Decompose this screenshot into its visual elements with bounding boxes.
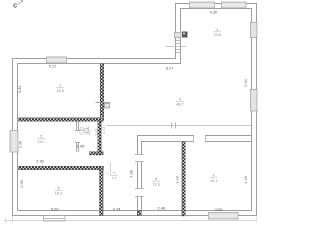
svg-text:2.74: 2.74	[113, 206, 121, 211]
dark tick bottom (BL/BR wall end)	[137, 211, 141, 216]
svg-text:8: 8	[155, 177, 157, 181]
svg-text:4.88: 4.88	[128, 170, 133, 178]
svg-text:5.17: 5.17	[49, 64, 57, 69]
porch below bottom wall	[44, 216, 66, 222]
dimension texts	[17, 10, 248, 212]
svg-text:48.7: 48.7	[176, 103, 183, 107]
svg-text:15.3: 15.3	[55, 192, 62, 196]
svg-text:2.96: 2.96	[19, 180, 24, 188]
window on step wall	[175, 33, 182, 38]
svg-text:5: 5	[40, 135, 42, 139]
svg-text:9: 9	[213, 174, 215, 178]
svg-text:4.30: 4.30	[210, 10, 218, 15]
hatched wall V1 upper	[100, 64, 104, 117]
svg-text:8.07: 8.07	[166, 66, 174, 71]
window W5 right wall a	[251, 23, 258, 38]
toilet fixtures	[80, 128, 89, 134]
outer wall outline	[13, 4, 257, 216]
svg-text:13.3: 13.3	[152, 182, 159, 186]
interior wall: bottom-right section (top + left)	[138, 136, 252, 211]
svg-text:3: 3	[216, 28, 218, 32]
toilet left wall	[75, 121, 80, 152]
svg-text:4.09: 4.09	[215, 207, 223, 212]
window W3 top-right a	[190, 2, 215, 8]
door gap in BR top wall	[193, 134, 206, 143]
svg-text:3.33: 3.33	[17, 86, 22, 94]
svg-text:10.7: 10.7	[38, 140, 45, 144]
svg-text:1.45: 1.45	[101, 126, 106, 134]
flue symbol top-right room	[182, 32, 188, 38]
window W4 top-right b	[222, 2, 247, 8]
svg-text:4.49: 4.49	[243, 176, 248, 184]
svg-text:2.1: 2.1	[85, 131, 90, 135]
svg-text:2: 2	[87, 126, 89, 130]
hatched wall V3	[100, 166, 104, 215]
door gaps in BR left wall	[137, 155, 143, 161]
svg-text:2.30: 2.30	[36, 158, 44, 163]
svg-text:4: 4	[179, 98, 181, 102]
north arrow	[13, 0, 23, 10]
svg-text:1.41: 1.41	[94, 128, 99, 136]
window W6 right wall b	[251, 90, 258, 112]
svg-text:7: 7	[113, 172, 115, 176]
hatched wall H2	[19, 166, 104, 170]
window W1 top-left	[47, 57, 67, 63]
hatched wall H1	[19, 118, 104, 121]
window W7 bottom wall	[209, 213, 239, 220]
svg-text:5.00: 5.00	[51, 206, 59, 211]
svg-text:16.1: 16.1	[210, 179, 217, 183]
hatched wall V1 lower (toilet right)	[98, 121, 101, 155]
svg-text:2.94: 2.94	[243, 78, 248, 86]
hatched wall V2	[182, 142, 185, 216]
svg-text:1: 1	[59, 84, 61, 88]
svg-text:1.48: 1.48	[17, 141, 22, 149]
svg-text:16.3: 16.3	[57, 89, 64, 93]
stack lines on step wall	[175, 41, 181, 53]
svg-text:7.7: 7.7	[111, 177, 116, 181]
hatched toilet bottom	[90, 152, 104, 155]
svg-text:2.46: 2.46	[158, 206, 166, 211]
svg-text:22.6: 22.6	[214, 33, 221, 37]
window W2 left wall	[10, 131, 18, 153]
svg-text:C: C	[13, 4, 17, 10]
overall dimension line below building	[5, 220, 257, 222]
svg-text:6: 6	[57, 186, 59, 190]
svg-text:1.43: 1.43	[175, 176, 180, 184]
faint door leaf in corridor	[110, 162, 112, 175]
flue symbol on V1	[96, 102, 111, 104]
tick crossing step wall	[165, 46, 186, 48]
room labels (fractions)	[37, 28, 221, 196]
svg-text:1.45: 1.45	[77, 143, 85, 148]
thin line across big room	[106, 125, 252, 127]
